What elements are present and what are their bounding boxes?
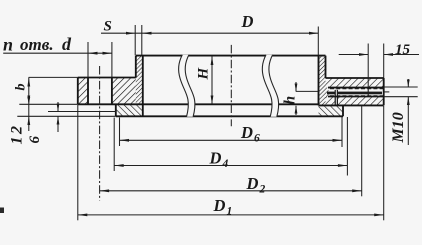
- svg-text:отв.: отв.: [20, 35, 54, 54]
- svg-text:D: D: [240, 123, 253, 142]
- svg-text:6: 6: [27, 136, 43, 144]
- svg-text:6: 6: [254, 133, 260, 145]
- svg-text:D: D: [209, 149, 222, 168]
- svg-text:15: 15: [395, 42, 411, 58]
- svg-text:D: D: [241, 12, 254, 31]
- svg-text:4: 4: [222, 158, 229, 170]
- svg-text:D: D: [246, 174, 259, 193]
- svg-text:h: h: [282, 96, 299, 105]
- svg-text:1: 1: [227, 206, 233, 218]
- svg-text:n: n: [3, 35, 13, 55]
- svg-text:b: b: [14, 84, 29, 91]
- svg-text:S: S: [104, 19, 112, 35]
- svg-text:2: 2: [259, 184, 266, 196]
- svg-text:12: 12: [9, 124, 26, 145]
- svg-text:d: d: [62, 34, 72, 54]
- svg-text:D: D: [213, 196, 226, 215]
- svg-text:H: H: [196, 67, 212, 81]
- svg-text:М10: М10: [390, 112, 407, 143]
